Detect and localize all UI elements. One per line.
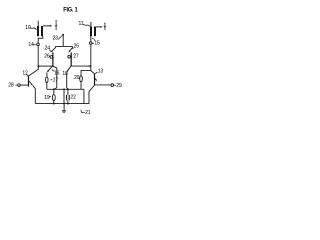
svg-text:26: 26: [44, 54, 50, 60]
svg-text:19: 19: [44, 95, 50, 101]
svg-text:20: 20: [74, 75, 80, 81]
svg-text:25: 25: [74, 43, 80, 49]
svg-text:13: 13: [98, 69, 104, 75]
svg-text:22: 22: [70, 94, 76, 100]
svg-text:16: 16: [54, 71, 60, 77]
svg-text:15: 15: [94, 41, 100, 47]
svg-text:21: 21: [85, 110, 91, 116]
svg-text:18: 18: [62, 71, 68, 77]
svg-text:24: 24: [45, 46, 51, 52]
svg-text:FIG. 1: FIG. 1: [63, 6, 78, 13]
svg-text:23: 23: [53, 35, 59, 41]
svg-text:28: 28: [8, 83, 14, 89]
svg-text:14: 14: [28, 42, 34, 48]
svg-text:10: 10: [25, 25, 31, 31]
svg-text:11: 11: [79, 21, 84, 27]
svg-text:29: 29: [116, 83, 122, 89]
svg-text:17: 17: [53, 78, 59, 84]
svg-text:12: 12: [22, 71, 28, 77]
svg-text:27: 27: [73, 54, 79, 60]
